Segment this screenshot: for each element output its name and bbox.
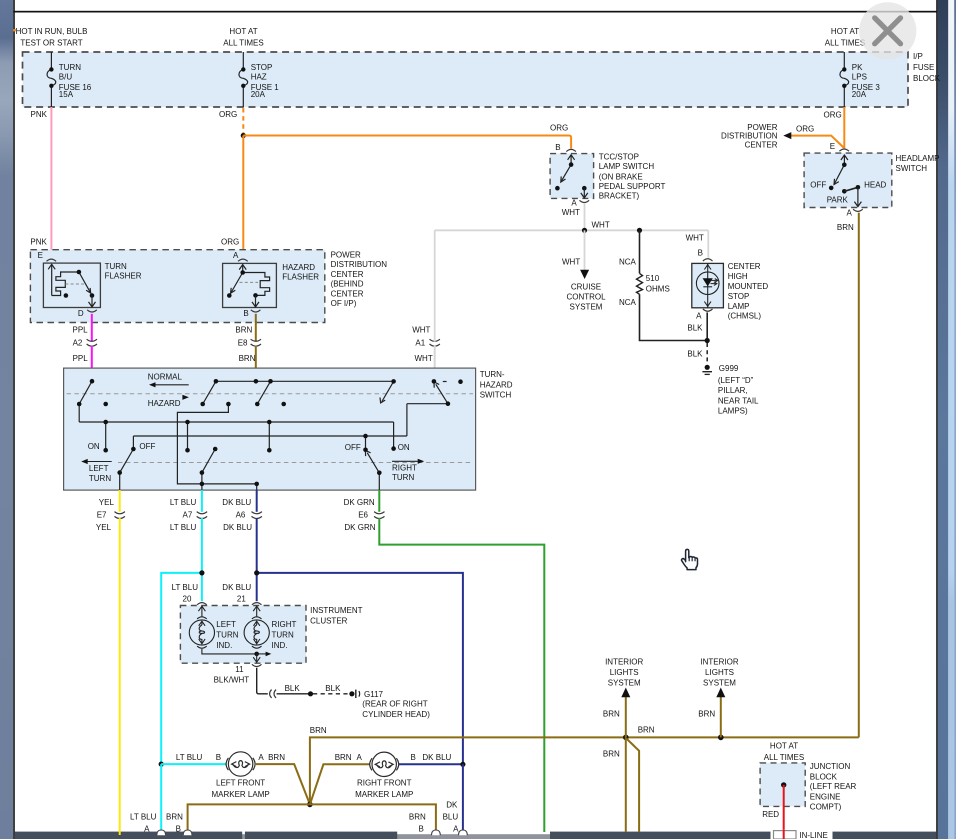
svg-text:WHT: WHT [415, 354, 433, 363]
svg-text:LEFT FRONT: LEFT FRONT [216, 779, 265, 788]
svg-text:BRN: BRN [603, 709, 620, 718]
wire RED through in-line connector [783, 829, 785, 839]
turn flasher U-box [43, 263, 100, 307]
svg-text:20A: 20A [852, 90, 867, 99]
arrow HAZARD direction [182, 395, 189, 400]
TCC switch output arrow [581, 188, 588, 198]
left page-edge bar [0, 0, 13, 839]
node headlamp OFF contact [829, 186, 834, 191]
svg-text:ON: ON [88, 442, 100, 451]
svg-text:LAMP: LAMP [728, 302, 750, 311]
node mid-left bus tap [185, 420, 190, 425]
wire BRN headlamp switch down right side [858, 213, 860, 738]
wire BLK CHMSL A to junction [706, 312, 708, 340]
svg-text:A: A [696, 311, 702, 320]
svg-text:OFF: OFF [810, 180, 826, 189]
wire BRN junction 1 down to bottom [625, 737, 627, 832]
turn flasher contact arm [79, 272, 91, 293]
wire PPL flasher D to connector A2 [91, 314, 93, 342]
hazard flasher separator dashed [240, 281, 259, 283]
svg-text:HAZARD: HAZARD [282, 263, 315, 272]
wire BLK resistor to CHMSL A junction [640, 294, 708, 340]
svg-text:PK: PK [852, 63, 863, 72]
svg-text:E8: E8 [238, 338, 248, 347]
svg-text:ORG: ORG [550, 124, 568, 133]
fuse TURN B/U FUSE 16 15A [47, 52, 56, 107]
wire DK GRN connector down and right [379, 518, 544, 832]
svg-text:BLK: BLK [687, 323, 703, 332]
switch mode separator dashed (lower) [118, 462, 473, 464]
svg-text:ORG: ORG [219, 110, 237, 119]
svg-text:FLASHER: FLASHER [105, 271, 142, 280]
wire upper bus [216, 380, 394, 382]
wire ORG junction to hazard flasher [242, 136, 244, 260]
headlamp switch output arrow [854, 187, 861, 206]
svg-text:B: B [176, 824, 181, 833]
svg-text:A: A [233, 251, 239, 260]
svg-text:A2: A2 [73, 338, 83, 347]
wire BRN flasher B to connector E8 [255, 314, 257, 342]
svg-text:DK: DK [446, 801, 458, 810]
bottom connector BRN B right [432, 830, 441, 835]
node upper bus end [214, 379, 219, 384]
stub ON left [105, 422, 107, 450]
headlamp switch box [804, 153, 892, 207]
wire WHT horizontal bus [435, 229, 709, 231]
svg-text:TURN: TURN [216, 630, 238, 639]
I/P fuse block (top band) [23, 52, 909, 107]
svg-text:20A: 20A [251, 90, 266, 99]
right turn indicator bulb [244, 606, 269, 648]
svg-text:RIGHT: RIGHT [272, 620, 297, 629]
CHMSL LED bar [703, 286, 712, 288]
svg-text:MARKER LAMP: MARKER LAMP [355, 790, 413, 799]
turn flasher heater meander [52, 272, 79, 296]
wire YEL switch to connector E7 [119, 490, 121, 512]
turn flasher input arrow [48, 264, 90, 295]
svg-text:TURN: TURN [392, 473, 414, 482]
node PPL entry [90, 379, 95, 384]
svg-text:OFF: OFF [139, 442, 155, 451]
node OFF right stub end [363, 448, 368, 453]
arrow interior lights 2 [716, 688, 725, 698]
cluster output arrow down [253, 654, 260, 662]
svg-text:E7: E7 [97, 510, 107, 519]
svg-text:DK BLU: DK BLU [222, 498, 251, 507]
wire WHT down to cruise control arrow [584, 230, 586, 270]
svg-text:OF I/P): OF I/P) [331, 299, 357, 308]
svg-text:A6: A6 [236, 510, 246, 519]
svg-text:PNK: PNK [31, 110, 48, 119]
wire PPL connector A2 to turn-hazard switch [91, 346, 93, 382]
power distribution center box [30, 250, 324, 323]
CHMSL internal line and arrows [704, 264, 711, 308]
svg-text:LT BLU: LT BLU [170, 498, 197, 507]
svg-text:BRN: BRN [409, 812, 426, 821]
bottom connector BRN B [183, 830, 192, 835]
wire bus right corner to ON right [393, 422, 395, 449]
inline connector (( [270, 690, 272, 698]
svg-text:ON: ON [398, 443, 410, 452]
pole 2 arm [203, 381, 216, 404]
svg-text:(LEFT “D”: (LEFT “D” [718, 376, 754, 385]
svg-text:SYSTEM: SYSTEM [570, 302, 603, 311]
svg-text:LEFT: LEFT [216, 620, 236, 629]
svg-text:HIGH: HIGH [728, 272, 748, 281]
node mid-right stub end [267, 448, 272, 453]
turn flasher output arrow [89, 296, 96, 307]
svg-text:BLK/WHT: BLK/WHT [214, 675, 250, 684]
svg-text:INTERIOR: INTERIOR [605, 658, 643, 667]
node pole3 fixed [281, 402, 286, 407]
svg-text:B: B [411, 753, 416, 762]
svg-text:ALL TIMES: ALL TIMES [764, 753, 804, 762]
svg-text:TURN-: TURN- [480, 370, 505, 379]
connector 11 (cluster) [252, 664, 262, 666]
svg-text:20: 20 [183, 595, 192, 604]
svg-text:CENTER: CENTER [728, 262, 761, 271]
hazard flasher contact arm [231, 273, 243, 294]
node headlamp switch pivot [842, 163, 847, 168]
svg-text:CLUSTER: CLUSTER [310, 616, 348, 625]
svg-text:HOT AT: HOT AT [831, 27, 859, 36]
svg-text:CRUISE: CRUISE [571, 282, 601, 291]
mid turn arm (LT BLU) [202, 449, 215, 473]
wire ORG junction to TCC/stop lamp switch [243, 136, 571, 149]
svg-text:B: B [243, 309, 248, 318]
svg-text:TURN: TURN [89, 474, 111, 483]
wire DK BLU junction branch right and down [257, 573, 463, 764]
right light stripe [948, 0, 954, 839]
svg-text:SWITCH: SWITCH [896, 164, 928, 173]
turn flasher separator dashed [65, 283, 84, 285]
svg-text:BRN: BRN [239, 354, 256, 363]
svg-text:ALL TIMES: ALL TIMES [825, 39, 865, 48]
node BRN entry [254, 379, 259, 384]
wire LT BLU stub to box edge [201, 484, 203, 490]
pole 1 arm (PPL) [79, 381, 92, 404]
wire hazard feed path [177, 404, 256, 484]
CHMSL emission arrows [711, 279, 718, 286]
arrow cluster stub right [257, 653, 268, 655]
ground G117 [349, 691, 354, 696]
svg-text:LAMPS): LAMPS) [718, 407, 748, 416]
svg-text:G999: G999 [719, 364, 739, 373]
right turn arm with arrowhead (DK GRN) [367, 453, 379, 473]
node pole1 pivot [77, 402, 82, 407]
node ON left contact [103, 448, 108, 453]
wire BRN left marker to junction [255, 764, 310, 804]
svg-text:BRN: BRN [837, 223, 854, 232]
svg-text:(LEFT REAR: (LEFT REAR [810, 782, 857, 791]
wire LT BLU junction to bottom connector [160, 764, 162, 831]
svg-text:B: B [698, 249, 703, 258]
node bus left tap [103, 420, 108, 425]
right outer edge [954, 0, 956, 839]
fuse STOP HAZ FUSE 1 20A [239, 52, 248, 107]
instrument cluster box [180, 606, 306, 664]
svg-text:A: A [144, 824, 150, 833]
svg-text:POWER: POWER [331, 251, 361, 260]
stub mid-right [268, 422, 270, 450]
svg-text:DK BLU: DK BLU [223, 523, 252, 532]
wire off bus lower [133, 435, 407, 437]
svg-text:RIGHT FRONT: RIGHT FRONT [357, 779, 412, 788]
node pole2 pivot [200, 402, 205, 407]
svg-text:LT BLU: LT BLU [172, 583, 199, 592]
svg-text:HEAD: HEAD [864, 180, 886, 189]
svg-text:G117: G117 [364, 690, 384, 699]
wire ORG fuse 3 down to headlamp switch [843, 107, 845, 148]
wire ORG dashed segment below fuse 1 [242, 108, 244, 133]
svg-text:IN-LINE: IN-LINE [799, 831, 827, 839]
svg-text:LT BLU: LT BLU [130, 812, 157, 821]
svg-text:HOT AT: HOT AT [770, 742, 798, 751]
bottom connector DK BLU A right [459, 830, 468, 835]
wire LT BLU switch to connector A7 [201, 490, 203, 512]
node headlamp PARK contact [842, 189, 847, 194]
bottom scrollbar track [15, 834, 936, 839]
node TCC switch pivot [569, 162, 574, 167]
svg-text:A7: A7 [183, 510, 193, 519]
svg-text:(BEHIND: (BEHIND [331, 280, 364, 289]
hazard flasher heater meander [243, 273, 270, 296]
cruise control system arrow [580, 270, 589, 279]
svg-text:MOUNTED: MOUNTED [728, 282, 769, 291]
svg-text:LIGHTS: LIGHTS [705, 668, 734, 677]
svg-text:CYLINDER HEAD): CYLINDER HEAD) [362, 710, 430, 719]
svg-text:E: E [830, 142, 835, 151]
wire OFF left drop [132, 436, 134, 449]
svg-text:15A: 15A [59, 90, 74, 99]
node LT BLU tap [200, 482, 205, 487]
svg-text:A1: A1 [415, 338, 425, 347]
svg-text:PEDAL SUPPORT: PEDAL SUPPORT [599, 182, 666, 191]
svg-text:DK BLU: DK BLU [422, 753, 451, 762]
node hazard flasher spare contact [227, 293, 232, 298]
svg-text:A: A [453, 824, 459, 833]
mouse cursor [682, 549, 698, 569]
svg-text:SYSTEM: SYSTEM [608, 678, 641, 687]
node pole5 pivot [446, 401, 451, 406]
turn-hazard switch box [64, 368, 476, 490]
wire LT BLU connector down [201, 518, 203, 573]
node pole3 pivot [255, 402, 260, 407]
wire DK GRN switch to connector E6 [378, 490, 380, 512]
svg-text:A: A [571, 198, 577, 207]
svg-text:MARKER LAMP: MARKER LAMP [211, 790, 269, 799]
node pole2 fixed [226, 402, 231, 407]
wire BRN connector E8 to turn-hazard switch [255, 346, 257, 382]
wire LT BLU contact down [201, 473, 203, 484]
wire lower bus [79, 421, 393, 423]
svg-text:NCA: NCA [619, 258, 637, 267]
svg-text:FUSE: FUSE [913, 63, 934, 72]
node bus right end [391, 379, 396, 384]
node WHT entry [432, 379, 437, 384]
svg-text:FLASHER: FLASHER [282, 273, 319, 282]
svg-text:ALL TIMES: ALL TIMES [223, 39, 263, 48]
wire BRN to interior lights 1 [625, 694, 627, 737]
node ORG junction [241, 133, 246, 138]
connector 21 (cluster) [252, 603, 262, 605]
node OFF right contact [363, 434, 368, 439]
svg-text:A: A [258, 753, 264, 762]
headlamp PARK-HEAD link [844, 187, 858, 191]
wire LT BLU stub to cluster [201, 573, 203, 601]
svg-text:B: B [419, 824, 424, 833]
svg-text:BRN: BRN [698, 709, 715, 718]
svg-text:(CHMSL): (CHMSL) [728, 312, 762, 321]
CHMSL bulb circle [696, 272, 719, 295]
svg-text:WHT: WHT [562, 208, 580, 217]
wire off bus upper [407, 403, 448, 405]
node WHT junction at resistor [637, 228, 642, 233]
svg-text:LT BLU: LT BLU [170, 523, 197, 532]
svg-text:HAZ: HAZ [251, 73, 267, 82]
svg-text:11: 11 [235, 665, 244, 674]
CHMSL LED triangle [703, 278, 713, 286]
svg-text:BRN: BRN [603, 749, 620, 758]
wire BLK to junction [277, 693, 311, 695]
svg-text:SWITCH: SWITCH [480, 391, 512, 400]
wire DK GRN contact to box edge [378, 473, 380, 490]
left turn arm (YEL) [120, 449, 134, 473]
switch internals [79, 381, 448, 490]
svg-text:BLOCK: BLOCK [913, 74, 941, 83]
arrow NORMAL direction [154, 384, 189, 386]
svg-text:A: A [357, 753, 363, 762]
node spare contact right [458, 379, 463, 384]
bottom scrollbar segment 1 [15, 832, 242, 839]
svg-text:B/U: B/U [59, 73, 73, 82]
wire OFF right drop [365, 436, 367, 450]
svg-text:BLK: BLK [325, 684, 341, 693]
node DK BLU tap [254, 482, 259, 487]
svg-text:STOP: STOP [728, 292, 750, 301]
wire DK BLU junction to bottom connector [462, 764, 464, 831]
svg-text:HEADLAMP: HEADLAMP [896, 154, 940, 163]
svg-text:BLOCK: BLOCK [810, 772, 838, 781]
node BLK junction [308, 691, 313, 696]
node TCC switch output contact [582, 186, 587, 191]
left turn indicator bulb [189, 606, 256, 654]
junction block box [760, 763, 805, 807]
svg-text:TCC/STOP: TCC/STOP [599, 152, 639, 161]
ground G999 [705, 365, 710, 370]
svg-text:CENTER: CENTER [745, 140, 778, 149]
node turn flasher spare contact [64, 293, 69, 298]
fuse PK LPS FUSE 3 20A [840, 52, 849, 107]
svg-text:PILLAR,: PILLAR, [718, 386, 748, 395]
svg-text:RED: RED [762, 810, 779, 819]
wire BLK/WHT cluster to inline connector [257, 668, 268, 694]
arrow RIGHT TURN [392, 460, 420, 462]
svg-text:A: A [847, 209, 853, 218]
node LT BLU pivot [200, 470, 205, 475]
svg-text:NCA: NCA [619, 298, 637, 307]
svg-text:DISTRIBUTION: DISTRIBUTION [331, 260, 388, 269]
right page-edge panel [938, 0, 949, 839]
wire PNK from fuse 16 to turn flasher [50, 107, 52, 259]
svg-text:LAMP SWITCH: LAMP SWITCH [599, 162, 655, 171]
svg-text:BRN: BRN [166, 812, 183, 821]
svg-text:BRN: BRN [235, 326, 252, 335]
wire YEL connector to bottom [119, 518, 121, 835]
svg-text:INSTRUMENT: INSTRUMENT [310, 606, 363, 615]
svg-text:BRN: BRN [335, 753, 352, 762]
diagram frame right border [936, 0, 938, 839]
svg-text:WHT: WHT [562, 258, 580, 267]
svg-text:WHT: WHT [592, 221, 610, 230]
node BRN interior lights junction 2 [718, 735, 724, 741]
wire DK BLU switch to connector A6 [256, 490, 258, 512]
wire ORG branch to power distribution center [791, 136, 844, 148]
node pole1 fixed [103, 402, 108, 407]
svg-text:D: D [78, 309, 84, 318]
svg-text:BLK: BLK [687, 350, 703, 359]
wire BRN main bus [310, 737, 859, 804]
svg-text:TEST OR START: TEST OR START [20, 39, 82, 48]
svg-text:PPL: PPL [73, 326, 89, 335]
svg-text:ORG: ORG [824, 111, 842, 120]
wire LT BLU to left marker lamp [161, 763, 226, 765]
svg-text:CENTER: CENTER [331, 289, 364, 298]
svg-text:BLK: BLK [285, 684, 301, 693]
in-line connector box [774, 831, 797, 839]
connector 20 (cluster) [197, 603, 207, 605]
svg-text:BRN: BRN [268, 753, 285, 762]
CHMSL lamp box [692, 263, 724, 307]
hazard flasher U-box [223, 263, 277, 307]
wire DK BLU stub to cluster [256, 573, 258, 601]
small orange tick on left border [13, 29, 16, 31]
wire BRN junction 1 jog down to bottom [627, 739, 640, 832]
diagram frame left border [13, 0, 15, 839]
node TCC switch fixed contact [555, 186, 560, 191]
svg-text:BLU: BLU [443, 812, 459, 821]
svg-text:DISTRIBUTION: DISTRIBUTION [721, 132, 778, 141]
hazard flasher output arrow [252, 295, 259, 307]
hazard flasher input arrow [231, 265, 270, 296]
svg-text:TURN: TURN [272, 630, 294, 639]
pole 3 arm [257, 381, 270, 404]
node junction block terminal [781, 782, 786, 787]
wire BRN junction to bottom right connector [310, 804, 436, 831]
wire pole1 pivot to bus [78, 404, 80, 422]
svg-text:HAZARD: HAZARD [148, 399, 181, 408]
node turn flasher pivot [77, 270, 82, 275]
svg-text:TURN: TURN [105, 262, 127, 271]
node headlamp HEAD contact [856, 185, 861, 190]
svg-text:YEL: YEL [99, 498, 115, 507]
svg-text:(REAR OF RIGHT: (REAR OF RIGHT [362, 700, 427, 709]
arrow to power distribution center [783, 132, 791, 139]
svg-text:NORMAL: NORMAL [148, 373, 183, 382]
svg-text:DK GRN: DK GRN [344, 498, 375, 507]
svg-text:PNK: PNK [30, 238, 47, 247]
svg-text:ORG: ORG [796, 125, 814, 134]
svg-text:STOP: STOP [251, 63, 273, 72]
TCC/stop lamp switch box [550, 154, 594, 199]
wire DK BLU stub to box edge [256, 484, 258, 490]
node DK BLU junction [460, 762, 465, 767]
arrow LEFT TURN [86, 461, 112, 463]
wire BRN junction to bottom left connector [188, 804, 310, 831]
svg-text:21: 21 [237, 595, 246, 604]
wire BLK junction to resistor [639, 230, 641, 273]
svg-text:DK GRN: DK GRN [344, 523, 375, 532]
